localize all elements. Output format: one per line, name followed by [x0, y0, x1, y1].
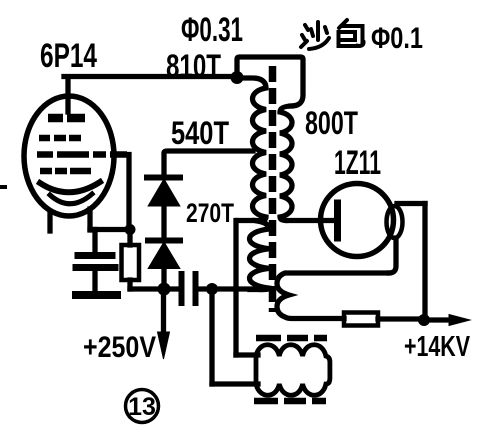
- wire screen-grid drop: [126, 155, 131, 229]
- node B junction dot: [206, 283, 218, 295]
- wire 1Z11 filament to winding: [389, 238, 396, 273]
- label shabao (Chinese): [301, 20, 364, 49]
- 6P14 grid g1 stub at left edge: [0, 185, 5, 189]
- svg-text:540T: 540T: [171, 115, 229, 151]
- svg-text:800T: 800T: [305, 105, 358, 141]
- svg-text:Φ0.1: Φ0.1: [371, 22, 423, 55]
- diode D2 cathode bar: [148, 238, 180, 244]
- wire +250V rail left: [130, 286, 178, 291]
- diode D2: [149, 243, 179, 268]
- wire R2 to output node: [378, 316, 420, 321]
- capacitor C1 top plate: [78, 252, 112, 259]
- wire R1 to +250V rail: [127, 280, 132, 289]
- capacitor C2 left plate: [179, 274, 185, 303]
- 1Z11 top cap loop: [387, 206, 403, 238]
- node +14KV junction dot: [418, 314, 430, 326]
- wire node B down to yoke bottom: [209, 289, 214, 384]
- T1 secondary 800T (right): [280, 106, 334, 221]
- resistor R1: [122, 245, 140, 280]
- wire C1 to ground: [92, 271, 97, 291]
- wire to yoke top: [236, 352, 258, 357]
- T1 junction dot (810T top): [231, 71, 244, 84]
- 1Z11 plate bar: [334, 203, 341, 238]
- node +250V junction dot: [158, 283, 171, 296]
- T1 filament winding: [277, 273, 388, 319]
- yoke core bottom (dashed): [254, 398, 326, 405]
- 6P14 grid g3 (dashed): [39, 135, 81, 142]
- wire D1 to D2: [161, 204, 166, 240]
- svg-text:6P14: 6P14: [40, 37, 97, 75]
- T1 winding 270T (left, lower): [250, 221, 270, 290]
- capacitor C2 right plate: [193, 274, 199, 303]
- ground bar: [76, 291, 117, 299]
- 6P14 plate bar: [48, 114, 85, 123]
- yoke core top (dashed): [256, 335, 327, 342]
- 6P14 heater arc: [50, 194, 92, 204]
- figure number 13: [126, 390, 159, 423]
- capacitor C1 bottom plate: [76, 264, 115, 271]
- svg-text:Φ0.31: Φ0.31: [181, 11, 243, 49]
- 6P14 grid g2 (dashed, extends right): [37, 151, 127, 158]
- wire D2 to +250V rail: [161, 267, 166, 289]
- diode D1 cathode bar: [147, 175, 180, 181]
- svg-text:+250V: +250V: [83, 331, 156, 364]
- wire 1Z11 cap to HV vertical: [397, 201, 425, 206]
- svg-text:1Z11: 1Z11: [334, 144, 381, 182]
- 6P14 plate (anode) top lead: [65, 77, 70, 112]
- wire 270T tap drop: [233, 221, 238, 356]
- svg-text:+14KV: +14KV: [404, 331, 470, 363]
- svg-text:13: 13: [128, 393, 156, 421]
- resistor R2: [344, 313, 378, 326]
- wire yoke bottom horizontal: [212, 381, 258, 386]
- +14KV output arrow: [424, 317, 449, 322]
- wire 540T tap: [164, 151, 253, 176]
- yoke coil L1: [256, 345, 330, 396]
- wire node K down to resistor R1: [127, 232, 132, 245]
- wire cathode to node K: [90, 227, 128, 232]
- svg-text:270T: 270T: [186, 198, 234, 228]
- 6P14 cathode arc: [40, 182, 100, 192]
- wire top bracket to 800T winding: [237, 57, 303, 106]
- 6P14 heater pin left: [47, 212, 52, 231]
- wire C2 to node B: [198, 286, 253, 291]
- tube 6P14 envelope: [24, 96, 114, 216]
- node K junction dot: [125, 224, 136, 235]
- tube 1Z11 envelope: [321, 184, 394, 257]
- 6P14 cathode pin: [87, 209, 92, 230]
- T1 primary winding 810T+540T (left, upper): [238, 78, 266, 221]
- +250V feed arrow: [161, 289, 166, 336]
- wire plate to 810T junction: [64, 74, 237, 79]
- T1 core (dashed): [269, 66, 277, 312]
- 6P14 grid g1 (dashed): [40, 168, 91, 175]
- wire branch to bypass capacitor C1: [92, 230, 97, 253]
- wire HV vertical: [422, 204, 427, 321]
- diode D1: [149, 180, 179, 206]
